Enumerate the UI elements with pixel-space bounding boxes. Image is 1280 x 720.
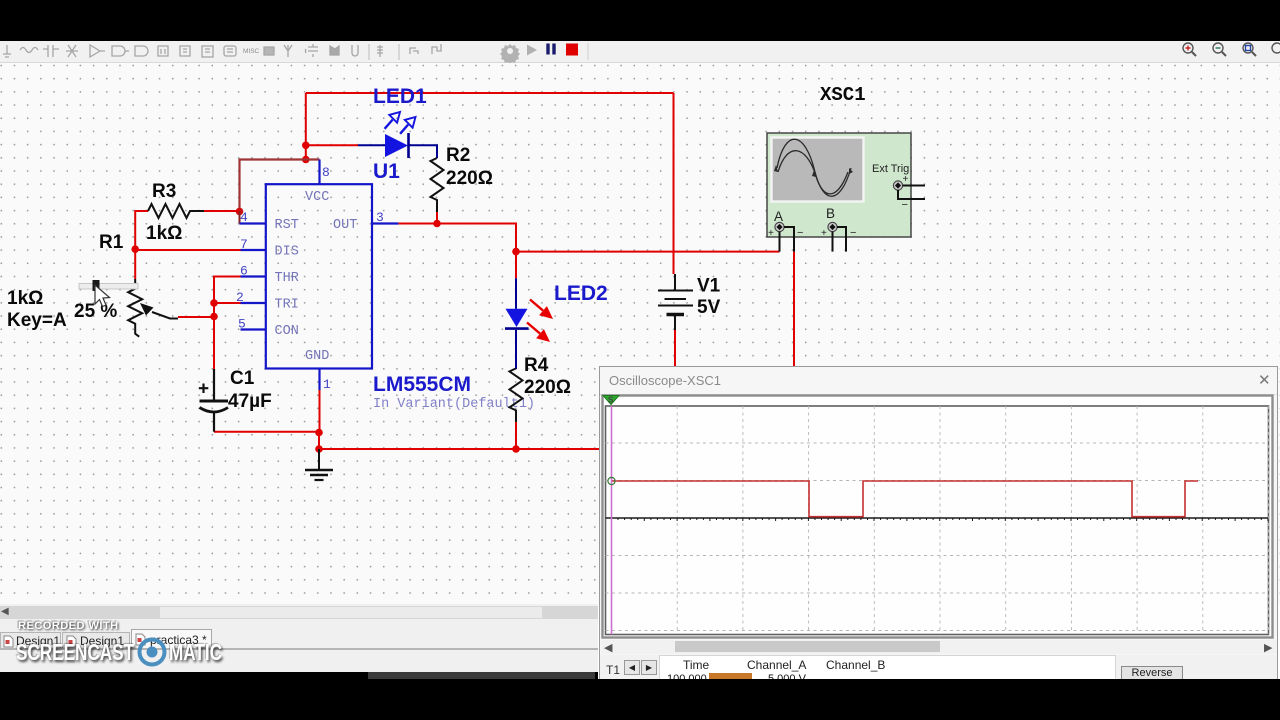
svg-text:RST: RST bbox=[275, 218, 299, 233]
sim controls bbox=[500, 43, 588, 64]
svg-text:V1: V1 bbox=[697, 276, 721, 297]
svg-text:OUT: OUT bbox=[333, 218, 357, 233]
pin 8 stub bbox=[318, 160, 320, 185]
svg-text:+: + bbox=[903, 174, 909, 185]
green S marker bbox=[603, 395, 619, 404]
time axis with ticks bbox=[606, 517, 1269, 519]
capacitor C1 bbox=[199, 369, 228, 432]
screencast watermark bbox=[18, 620, 119, 632]
resistor R3 bbox=[148, 204, 204, 218]
wire R3 right lead to junction bbox=[204, 210, 240, 212]
svg-text:XSC1: XSC1 bbox=[820, 84, 866, 106]
svg-text:1: 1 bbox=[323, 377, 331, 392]
wire wiper to tap bbox=[178, 316, 214, 318]
top black band bbox=[0, 0, 1280, 41]
wire battery bottom to ground (behind scope window) bbox=[674, 330, 676, 366]
svg-text:TRI: TRI bbox=[275, 298, 299, 313]
node OUT-LED2 junction bbox=[512, 248, 520, 256]
pin 5 stub bbox=[241, 328, 266, 330]
grid vertical dashed lines bbox=[612, 406, 1269, 634]
svg-text:5: 5 bbox=[238, 317, 246, 332]
potentiometer wiper arrow bbox=[140, 303, 178, 319]
svg-text:LED2: LED2 bbox=[554, 282, 608, 305]
wire pin1 vertical red bbox=[319, 390, 321, 433]
svg-text:GND: GND bbox=[305, 349, 329, 364]
wire ext trig plus stub bbox=[903, 185, 925, 187]
zoom icons right bbox=[1183, 43, 1280, 56]
potentiometer slider overlay bbox=[79, 280, 138, 291]
bottom area: canvas scrollbar bbox=[0, 604, 598, 672]
node RST-R3 junction bbox=[236, 208, 244, 216]
scope bottom info bbox=[600, 655, 1277, 682]
pin 6 stub bbox=[241, 275, 266, 277]
wire R4 bottom red bbox=[515, 422, 517, 449]
resistor R2 bbox=[431, 158, 444, 212]
wire TRI horizontal bbox=[214, 302, 241, 304]
node wiper tap junction bbox=[210, 313, 218, 321]
wire top supply bus bbox=[306, 92, 674, 94]
svg-text:R4: R4 bbox=[524, 355, 549, 376]
cursor T1 line bbox=[611, 406, 613, 635]
cursor handle circle bbox=[608, 477, 615, 484]
pin 4 stub bbox=[240, 222, 266, 224]
wire R3 left to DIS vertical bbox=[135, 211, 148, 249]
svg-text:220Ω: 220Ω bbox=[446, 168, 493, 189]
wire B plus down bbox=[832, 232, 834, 252]
svg-text:S: S bbox=[608, 395, 614, 404]
pin 3 stub bbox=[372, 222, 398, 224]
svg-text:VCC: VCC bbox=[305, 190, 329, 205]
svg-text:C1: C1 bbox=[230, 368, 255, 389]
dark status remnant bbox=[368, 672, 595, 679]
LED2 diode bbox=[505, 278, 529, 369]
svg-text:R2: R2 bbox=[446, 145, 470, 166]
svg-text:1kΩ: 1kΩ bbox=[146, 223, 182, 244]
mouse cursor bbox=[95, 285, 110, 307]
wire ground bus vertical bbox=[318, 433, 320, 450]
svg-text:220Ω: 220Ω bbox=[524, 377, 571, 398]
plot outer frame bbox=[603, 395, 1273, 637]
node R4 bottom junction bbox=[512, 445, 520, 453]
svg-text:B: B bbox=[826, 206, 835, 221]
toolbar strip bbox=[0, 41, 1280, 63]
svg-text:4: 4 bbox=[240, 210, 248, 225]
terminal A plus bbox=[768, 222, 803, 239]
grid horizontal dashed lines bbox=[606, 443, 1269, 631]
wire OUT to scope A bbox=[516, 251, 780, 253]
node ground bus junction bbox=[315, 445, 323, 453]
node OUT-R2 junction bbox=[433, 220, 441, 228]
terminal B plus bbox=[821, 222, 856, 239]
svg-text:5V: 5V bbox=[697, 297, 721, 318]
wire C1 bottom to ground bus bbox=[214, 431, 319, 433]
svg-text:−: − bbox=[902, 199, 908, 211]
svg-text:1kΩ: 1kΩ bbox=[7, 288, 43, 309]
wire to LED1 anode bbox=[306, 144, 358, 146]
wire A plus down bbox=[779, 232, 781, 252]
ground bbox=[305, 449, 333, 480]
wire R2 bottom lead red bbox=[436, 212, 438, 224]
wire bottom ground bus bbox=[319, 448, 599, 450]
wire LED1 anode lead navy bbox=[358, 144, 385, 146]
svg-text:R1: R1 bbox=[99, 232, 124, 253]
svg-text:−: − bbox=[850, 227, 856, 239]
svg-text:−: − bbox=[797, 227, 803, 239]
svg-text:THR: THR bbox=[275, 271, 299, 286]
wire ext trig minus stub bbox=[898, 190, 925, 199]
canvas dotted grid bbox=[0, 63, 1280, 604]
wire DIS horizontal bbox=[135, 249, 240, 251]
svg-text:47µF: 47µF bbox=[228, 391, 272, 412]
wire maroon RST-VCC link bbox=[240, 160, 320, 212]
wire left supply drop bbox=[305, 93, 307, 145]
wire DIS junction to potentiometer top bbox=[134, 249, 136, 279]
LED1 diode bbox=[385, 133, 437, 158]
wire B minus down bbox=[837, 227, 846, 252]
node supply-LED junction bbox=[302, 142, 310, 150]
svg-text:8: 8 bbox=[322, 165, 330, 180]
svg-text:Key=A: Key=A bbox=[7, 310, 67, 331]
svg-text:+: + bbox=[768, 228, 774, 239]
node DIS junction bbox=[131, 245, 139, 253]
wire scope A- probe down (behind scope window) bbox=[793, 252, 795, 366]
oscilloscope window bbox=[599, 366, 1278, 682]
svg-text:25 %: 25 % bbox=[74, 301, 117, 322]
battery V1 bbox=[658, 274, 693, 330]
wire THR horizontal and vertical tap bbox=[214, 277, 241, 370]
svg-text:DIS: DIS bbox=[275, 245, 299, 260]
pin 1 stub bbox=[318, 369, 320, 391]
black bottom band left bbox=[0, 672, 598, 720]
svg-text:A: A bbox=[774, 209, 783, 224]
black bottom band right bbox=[598, 679, 1280, 720]
resistor R4 bbox=[510, 368, 523, 422]
wire LED2 top red bbox=[515, 252, 517, 279]
svg-text:In Variant(Default1): In Variant(Default1) bbox=[373, 397, 535, 412]
svg-text:+: + bbox=[821, 228, 827, 239]
wire OUT net bbox=[398, 224, 516, 252]
wire right supply drop to battery bbox=[673, 93, 675, 274]
svg-text:7: 7 bbox=[240, 237, 248, 252]
pin 2 stub bbox=[241, 302, 266, 304]
wire junction drop bbox=[305, 145, 307, 159]
oscilloscope XSC1 instrument bbox=[767, 133, 911, 237]
LED1 emission arrows bbox=[385, 112, 416, 134]
potentiometer R1 body bbox=[128, 279, 142, 337]
wire RST pin stub bbox=[239, 211, 241, 223]
wire A minus down bbox=[784, 227, 794, 252]
channel A square wave trace bbox=[612, 481, 1199, 517]
scope scrollbar bbox=[601, 640, 1277, 654]
op-amp U1 555 timer body bbox=[266, 184, 372, 368]
svg-text:LM555CM: LM555CM bbox=[373, 373, 471, 396]
terminal Ext Trig bbox=[893, 174, 908, 211]
pin 7 stub bbox=[241, 249, 266, 251]
design tabs bbox=[0, 632, 61, 649]
svg-text:3: 3 bbox=[376, 210, 384, 225]
node pin1 ground junction bbox=[315, 429, 323, 437]
LED2 emission arrows bbox=[527, 300, 553, 343]
svg-text:R3: R3 bbox=[152, 181, 176, 202]
svg-text:U1: U1 bbox=[373, 160, 400, 183]
node pin8 net junction bbox=[302, 156, 310, 164]
svg-text:LED1: LED1 bbox=[373, 85, 427, 108]
svg-text:CON: CON bbox=[275, 324, 299, 339]
node TRI tap junction bbox=[210, 299, 218, 307]
svg-text:2: 2 bbox=[236, 290, 244, 305]
svg-text:6: 6 bbox=[240, 264, 248, 279]
